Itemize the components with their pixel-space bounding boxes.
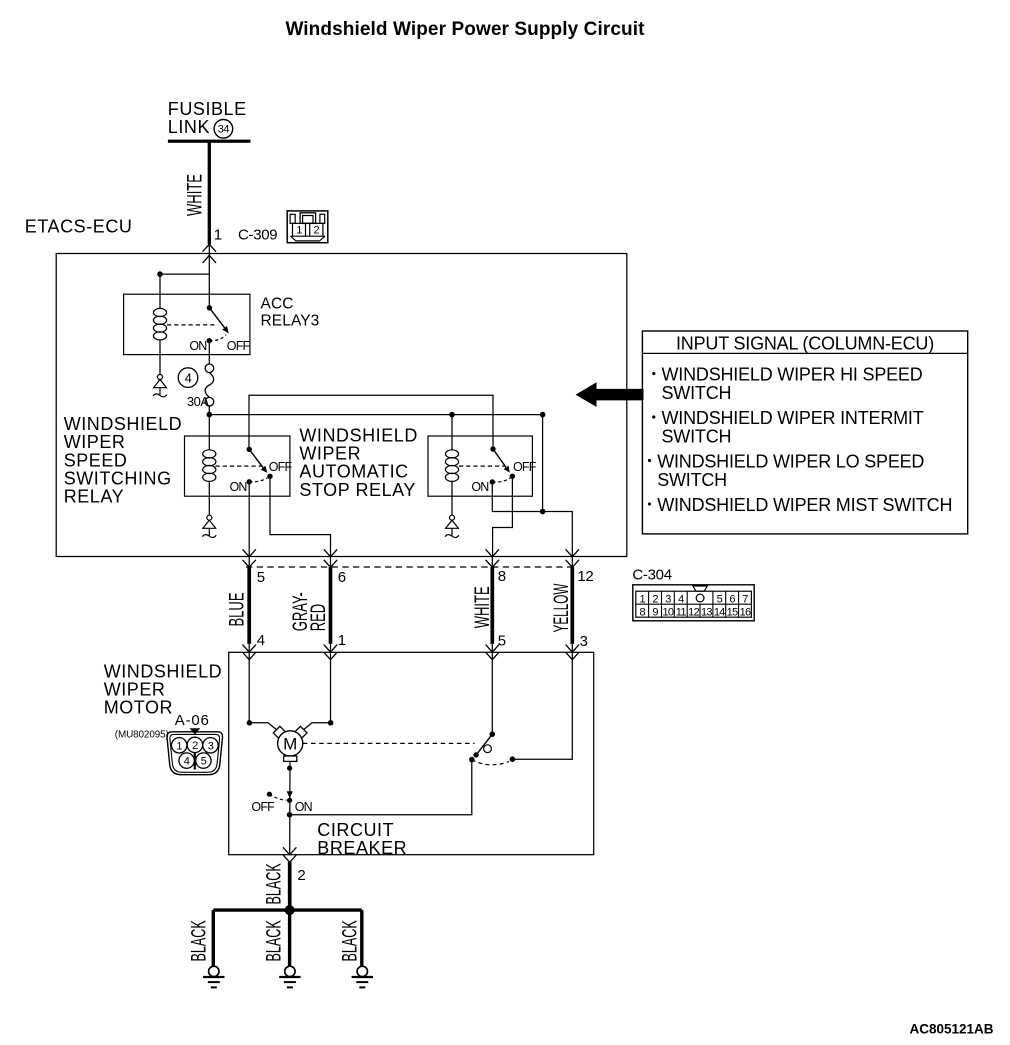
svg-text:11: 11: [676, 606, 687, 618]
svg-text:OFF: OFF: [513, 460, 537, 474]
svg-text:WIPER: WIPER: [64, 432, 126, 452]
svg-text:1: 1: [214, 227, 222, 244]
svg-text:15: 15: [727, 606, 738, 618]
svg-text:FUSIBLE: FUSIBLE: [168, 99, 247, 119]
svg-text:6: 6: [338, 569, 346, 586]
svg-text:WINDSHIELD WIPER HI SPEED: WINDSHIELD WIPER HI SPEED: [662, 365, 923, 385]
svg-text:ETACS-ECU: ETACS-ECU: [25, 216, 133, 236]
svg-text:1: 1: [176, 740, 182, 752]
svg-text:MOTOR: MOTOR: [104, 697, 173, 717]
svg-text:WHITE: WHITE: [470, 586, 494, 628]
svg-text:ON: ON: [189, 339, 207, 353]
svg-text:AC805121AB: AC805121AB: [910, 1021, 994, 1036]
svg-text:5: 5: [257, 569, 265, 586]
svg-text:5: 5: [201, 756, 207, 768]
svg-text:2: 2: [297, 867, 305, 884]
svg-text:ON: ON: [471, 480, 489, 494]
svg-text:8: 8: [639, 606, 645, 618]
svg-text:13: 13: [701, 606, 712, 618]
svg-text:3: 3: [580, 633, 588, 650]
svg-text:SPEED: SPEED: [64, 450, 128, 470]
svg-text:5: 5: [498, 632, 506, 649]
svg-text:ON: ON: [295, 800, 313, 814]
svg-text:WHITE: WHITE: [182, 174, 206, 216]
svg-text:1: 1: [639, 593, 645, 605]
svg-text:OFF: OFF: [251, 800, 275, 814]
svg-text:2: 2: [192, 740, 198, 752]
svg-text:INPUT SIGNAL (COLUMN-ECU): INPUT SIGNAL (COLUMN-ECU): [676, 333, 934, 353]
svg-text:5: 5: [717, 593, 723, 605]
svg-text:4: 4: [185, 371, 192, 386]
svg-text:WIPER: WIPER: [299, 444, 361, 464]
svg-text:3: 3: [665, 593, 671, 605]
svg-text:YELLOW: YELLOW: [550, 584, 573, 633]
svg-text:STOP RELAY: STOP RELAY: [299, 480, 416, 500]
svg-text:BLACK: BLACK: [261, 863, 285, 905]
svg-text:WINDSHIELD WIPER MIST SWITCH: WINDSHIELD WIPER MIST SWITCH: [657, 495, 952, 515]
svg-text:1: 1: [338, 632, 346, 649]
svg-text:8: 8: [498, 568, 506, 585]
svg-text:10: 10: [662, 606, 673, 618]
svg-text:2: 2: [652, 593, 658, 605]
svg-text:OFF: OFF: [269, 460, 293, 474]
svg-text:WINDSHIELD: WINDSHIELD: [64, 414, 183, 434]
svg-text:M: M: [283, 735, 297, 754]
svg-text:OFF: OFF: [227, 339, 251, 353]
svg-text:C-304: C-304: [632, 567, 671, 584]
svg-text:SWITCH: SWITCH: [657, 470, 727, 490]
svg-text:ACC: ACC: [261, 296, 294, 313]
svg-text:SWITCHING: SWITCHING: [64, 469, 172, 489]
svg-text:Windshield Wiper Power Supply: Windshield Wiper Power Supply Circuit: [285, 19, 645, 40]
svg-text:A-06: A-06: [175, 712, 210, 729]
svg-text:RED: RED: [306, 604, 330, 631]
svg-text:1: 1: [296, 225, 302, 237]
svg-text:SWITCH: SWITCH: [662, 426, 732, 446]
svg-text:16: 16: [740, 606, 751, 618]
svg-text:30A: 30A: [187, 394, 209, 409]
svg-text:14: 14: [714, 606, 725, 618]
svg-text:BLACK: BLACK: [337, 920, 361, 962]
svg-text:BLACK: BLACK: [261, 920, 285, 962]
svg-text:2: 2: [313, 225, 319, 237]
svg-text:BREAKER: BREAKER: [317, 838, 407, 858]
svg-text:WINDSHIELD: WINDSHIELD: [299, 425, 418, 445]
svg-text:AUTOMATIC: AUTOMATIC: [299, 462, 408, 482]
svg-text:RELAY: RELAY: [64, 487, 124, 507]
svg-text:4: 4: [184, 756, 190, 768]
svg-text:12: 12: [577, 568, 593, 585]
svg-text:RELAY3: RELAY3: [261, 312, 320, 329]
svg-text:LINK: LINK: [168, 117, 210, 137]
svg-text:3: 3: [208, 740, 214, 752]
svg-text:7: 7: [742, 593, 748, 605]
svg-text:C-309: C-309: [238, 227, 277, 244]
svg-text:34: 34: [218, 124, 230, 136]
svg-text:12: 12: [688, 606, 699, 618]
svg-text:4: 4: [257, 632, 265, 649]
svg-text:BLUE: BLUE: [224, 592, 248, 626]
svg-text:4: 4: [678, 593, 684, 605]
svg-text:ON: ON: [229, 480, 247, 494]
svg-text:6: 6: [729, 593, 735, 605]
svg-text:WINDSHIELD WIPER LO SPEED: WINDSHIELD WIPER LO SPEED: [657, 452, 924, 472]
svg-text:BLACK: BLACK: [186, 920, 210, 962]
svg-text:SWITCH: SWITCH: [662, 383, 732, 403]
svg-text:WINDSHIELD WIPER INTERMIT: WINDSHIELD WIPER INTERMIT: [662, 408, 924, 428]
svg-text:(MU802095): (MU802095): [115, 729, 169, 740]
svg-text:CIRCUIT: CIRCUIT: [317, 820, 394, 840]
svg-text:9: 9: [652, 606, 658, 618]
